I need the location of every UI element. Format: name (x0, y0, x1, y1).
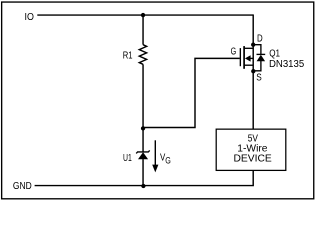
svg-text:S: S (256, 73, 262, 84)
svg-text:G: G (165, 155, 171, 166)
svg-text:Q1: Q1 (269, 49, 280, 60)
svg-text:GND: GND (13, 181, 32, 192)
svg-text:R1: R1 (123, 51, 133, 62)
svg-text:DN3135: DN3135 (269, 59, 305, 70)
svg-text:DEVICE: DEVICE (234, 153, 273, 164)
svg-text:IO: IO (25, 12, 35, 23)
svg-text:D: D (257, 34, 263, 45)
svg-text:U1: U1 (123, 153, 132, 164)
svg-text:G: G (231, 47, 237, 58)
